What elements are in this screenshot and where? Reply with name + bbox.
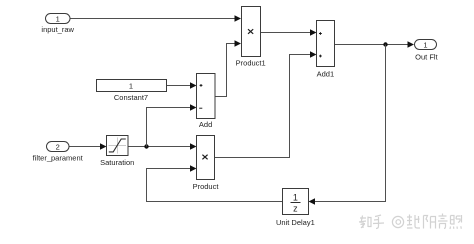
arrowhead into Unit Delay1 right side xyxy=(309,198,316,204)
at sign xyxy=(392,216,403,227)
sum block Add xyxy=(197,74,216,130)
svg-text:Saturation: Saturation xyxy=(100,158,134,167)
product block Product xyxy=(193,136,220,192)
arrowhead into Product1 in2 xyxy=(235,40,242,46)
arrowhead into Add1 in2 xyxy=(310,51,317,57)
char gao xyxy=(438,214,448,229)
wire Add1 out to Out Flt port xyxy=(335,44,410,46)
char yan xyxy=(407,215,420,229)
inport 1 input_raw xyxy=(41,14,74,35)
wire Product1 out to Add1 in1 xyxy=(261,32,312,34)
svg-text:1: 1 xyxy=(293,193,298,203)
inport 2 filter_parament xyxy=(33,142,84,163)
svg-text:Product1: Product1 xyxy=(236,59,266,68)
svg-text:z: z xyxy=(293,204,298,214)
svg-text:Product: Product xyxy=(193,182,220,191)
unit delay block Unit Delay1 xyxy=(276,189,315,228)
wire Add out to Product1 in2 xyxy=(215,44,236,97)
char hu xyxy=(373,215,384,229)
char zhi xyxy=(359,216,371,229)
char zhao xyxy=(450,215,462,229)
junction node on Add1 output xyxy=(383,42,387,46)
arrowhead into Product1 in1 xyxy=(235,15,242,21)
wire Constant7 to Add plus input xyxy=(166,85,192,87)
wire Product out to Add1 in2 xyxy=(215,55,312,158)
svg-text:Unit Delay1: Unit Delay1 xyxy=(276,218,315,227)
wire Saturation out to Product in1 xyxy=(128,146,192,148)
svg-text:Add1: Add1 xyxy=(317,70,335,79)
junction node on Saturation output xyxy=(144,144,148,148)
svg-text:2: 2 xyxy=(56,142,60,151)
watermark zhihu text xyxy=(359,215,384,229)
outport 1 Out Flt xyxy=(415,40,439,62)
wire input_raw to Product1 in1 xyxy=(70,18,236,20)
arrowhead into Product in2 xyxy=(190,165,197,171)
svg-text:Constant7: Constant7 xyxy=(114,93,148,102)
product block Product1 xyxy=(236,7,266,68)
char yang xyxy=(424,216,436,229)
svg-text:1: 1 xyxy=(423,40,427,49)
wire Unit Delay1 out to Product in2 xyxy=(147,169,283,202)
wire branch junction up to Add minus input xyxy=(147,108,192,147)
constant Constant7 xyxy=(97,80,167,103)
svg-text:input_raw: input_raw xyxy=(41,25,74,34)
arrowhead into Saturation xyxy=(100,143,107,149)
sum block Add1 xyxy=(317,21,335,79)
wire filter_parament to Saturation xyxy=(69,146,102,148)
svg-text:filter_parament: filter_parament xyxy=(33,154,84,163)
saturation block Saturation xyxy=(100,136,134,168)
svg-text:Add: Add xyxy=(199,120,212,129)
wire branch junction down to Unit Delay1 input xyxy=(313,45,386,202)
arrowhead into Out Flt xyxy=(408,41,415,47)
arrowhead into Add minus input xyxy=(190,104,197,110)
svg-text:Out Flt: Out Flt xyxy=(415,52,438,61)
svg-text:1: 1 xyxy=(129,81,133,90)
arrowhead into Product in1 xyxy=(190,143,197,149)
svg-text:1: 1 xyxy=(56,14,60,23)
arrowhead into Add1 in1 xyxy=(310,29,317,35)
arrowhead into Add plus input xyxy=(190,82,197,88)
